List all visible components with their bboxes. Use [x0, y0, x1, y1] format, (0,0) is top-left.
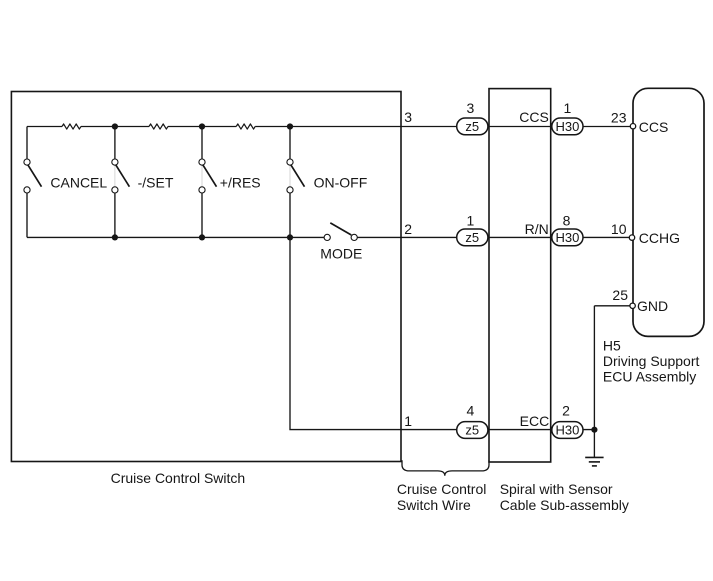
svg-text:ECC: ECC	[520, 413, 550, 429]
svg-text:25: 25	[612, 287, 628, 303]
svg-text:Cable Sub-assembly: Cable Sub-assembly	[500, 497, 629, 513]
svg-text:23: 23	[611, 109, 627, 125]
svg-text:GND: GND	[637, 298, 668, 314]
svg-text:1: 1	[467, 213, 475, 229]
svg-text:H30: H30	[555, 230, 579, 245]
svg-text:R/N: R/N	[525, 221, 549, 237]
svg-text:CCS: CCS	[519, 109, 549, 125]
svg-text:CANCEL: CANCEL	[50, 174, 107, 190]
svg-text:H30: H30	[555, 119, 579, 134]
svg-text:10: 10	[611, 221, 627, 237]
svg-text:H5: H5	[603, 337, 621, 353]
svg-text:z5: z5	[465, 230, 479, 245]
svg-text:Cruise Control Switch: Cruise Control Switch	[111, 470, 246, 486]
svg-text:ON-OFF: ON-OFF	[314, 174, 368, 190]
svg-text:+/RES: +/RES	[220, 174, 261, 190]
svg-text:z5: z5	[465, 119, 479, 134]
svg-text:z5: z5	[465, 423, 479, 438]
svg-text:CCHG: CCHG	[639, 230, 680, 246]
svg-text:1: 1	[404, 413, 412, 429]
svg-text:2: 2	[562, 403, 570, 419]
svg-text:MODE: MODE	[320, 245, 362, 261]
svg-text:-/SET: -/SET	[138, 174, 174, 190]
svg-text:Driving Support: Driving Support	[603, 353, 700, 369]
svg-text:ECU Assembly: ECU Assembly	[603, 368, 696, 384]
svg-text:8: 8	[563, 213, 571, 229]
svg-text:1: 1	[564, 100, 572, 116]
svg-text:Spiral with Sensor: Spiral with Sensor	[500, 481, 613, 497]
svg-text:3: 3	[467, 100, 475, 116]
svg-text:3: 3	[404, 109, 412, 125]
svg-text:4: 4	[467, 402, 475, 418]
svg-text:2: 2	[404, 221, 412, 237]
svg-text:Cruise Control: Cruise Control	[397, 481, 486, 497]
svg-text:H30: H30	[555, 423, 579, 438]
svg-text:Switch Wire: Switch Wire	[397, 497, 471, 513]
svg-text:CCS: CCS	[639, 119, 669, 135]
